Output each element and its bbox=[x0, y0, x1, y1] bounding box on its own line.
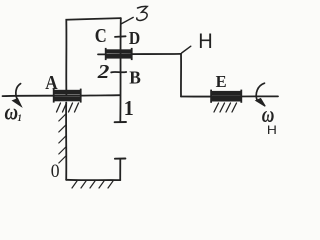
svg-text:1: 1 bbox=[124, 96, 134, 120]
svg-text:0: 0 bbox=[51, 161, 60, 182]
fixed support tick (stem + cap) bbox=[119, 159, 121, 180]
svg-text:D: D bbox=[129, 28, 140, 48]
svg-text:H: H bbox=[198, 30, 213, 53]
wire: output shaft right bbox=[181, 95, 278, 97]
wire: left input shaft bbox=[3, 94, 120, 97]
hatching under bottom line bbox=[72, 181, 113, 188]
omega1 arrowhead bbox=[13, 99, 21, 106]
bearing E bbox=[210, 90, 242, 103]
svg-text:1: 1 bbox=[17, 113, 22, 123]
gear tick C/D bbox=[115, 35, 126, 38]
gear mesh block D-2 bbox=[105, 48, 133, 60]
svg-text:E: E bbox=[216, 72, 227, 91]
omegaH arrowhead bbox=[256, 99, 265, 107]
carrier H vertical arm bbox=[180, 54, 182, 97]
hatching along link 0 bbox=[59, 114, 66, 163]
omegaH arrow arc bbox=[256, 83, 264, 100]
leader line to label 3 bbox=[122, 17, 134, 23]
bearing A bbox=[53, 89, 82, 103]
gear 1 bottom cap bbox=[115, 121, 126, 123]
svg-text:2: 2 bbox=[97, 61, 110, 83]
svg-text:H: H bbox=[267, 123, 277, 137]
omega1 arrow arc bbox=[16, 84, 21, 100]
link 3 frame (left edge + top edge) bbox=[66, 18, 121, 95]
hatching under bearing E bbox=[214, 103, 237, 112]
svg-text:B: B bbox=[129, 67, 141, 87]
svg-text:C: C bbox=[95, 26, 107, 47]
link 0 vertical line bbox=[65, 103, 67, 180]
leader line to label H bbox=[182, 46, 191, 53]
gear tick B bbox=[111, 71, 126, 73]
svg-text:A: A bbox=[45, 73, 57, 94]
wire: central vertical shaft line bbox=[119, 18, 122, 122]
link 0 bottom horizontal line bbox=[66, 179, 120, 181]
hatching under bearing A bbox=[57, 103, 79, 112]
label 3 bbox=[137, 6, 147, 20]
wire: planet shaft horizontal line bbox=[98, 53, 181, 56]
svg-text:ω: ω bbox=[5, 99, 19, 124]
